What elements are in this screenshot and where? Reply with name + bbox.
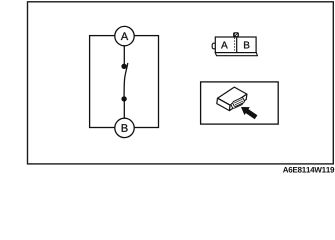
- connector body: [215, 37, 256, 53]
- location icon box: [201, 82, 279, 124]
- connector cavity divider: [236, 37, 238, 53]
- switch blade: [124, 63, 128, 97]
- pin B label: [244, 42, 249, 49]
- pointer arrow: [241, 107, 257, 119]
- figure number label: [283, 167, 334, 173]
- terminal B: [115, 118, 134, 137]
- junction upper contact dot: [121, 64, 126, 69]
- unit left face: [217, 98, 230, 110]
- pin A label: [221, 42, 228, 49]
- terminal A: [115, 26, 134, 45]
- switch body rectangle: [90, 36, 159, 128]
- unit connector socket: [230, 97, 245, 109]
- connector retaining clip: [212, 43, 216, 49]
- unit isometric top face: [218, 87, 247, 105]
- unit right face: [229, 94, 247, 111]
- junction lower contact dot: [121, 96, 126, 101]
- connector bolt hidden line: [234, 38, 236, 53]
- wire from terminal A to upper contact: [123, 46, 125, 66]
- frame border: [28, 2, 334, 164]
- wire from lower contact to terminal B: [123, 99, 125, 118]
- connector lower flange: [215, 52, 257, 55]
- connector mounting bolt: [233, 32, 239, 37]
